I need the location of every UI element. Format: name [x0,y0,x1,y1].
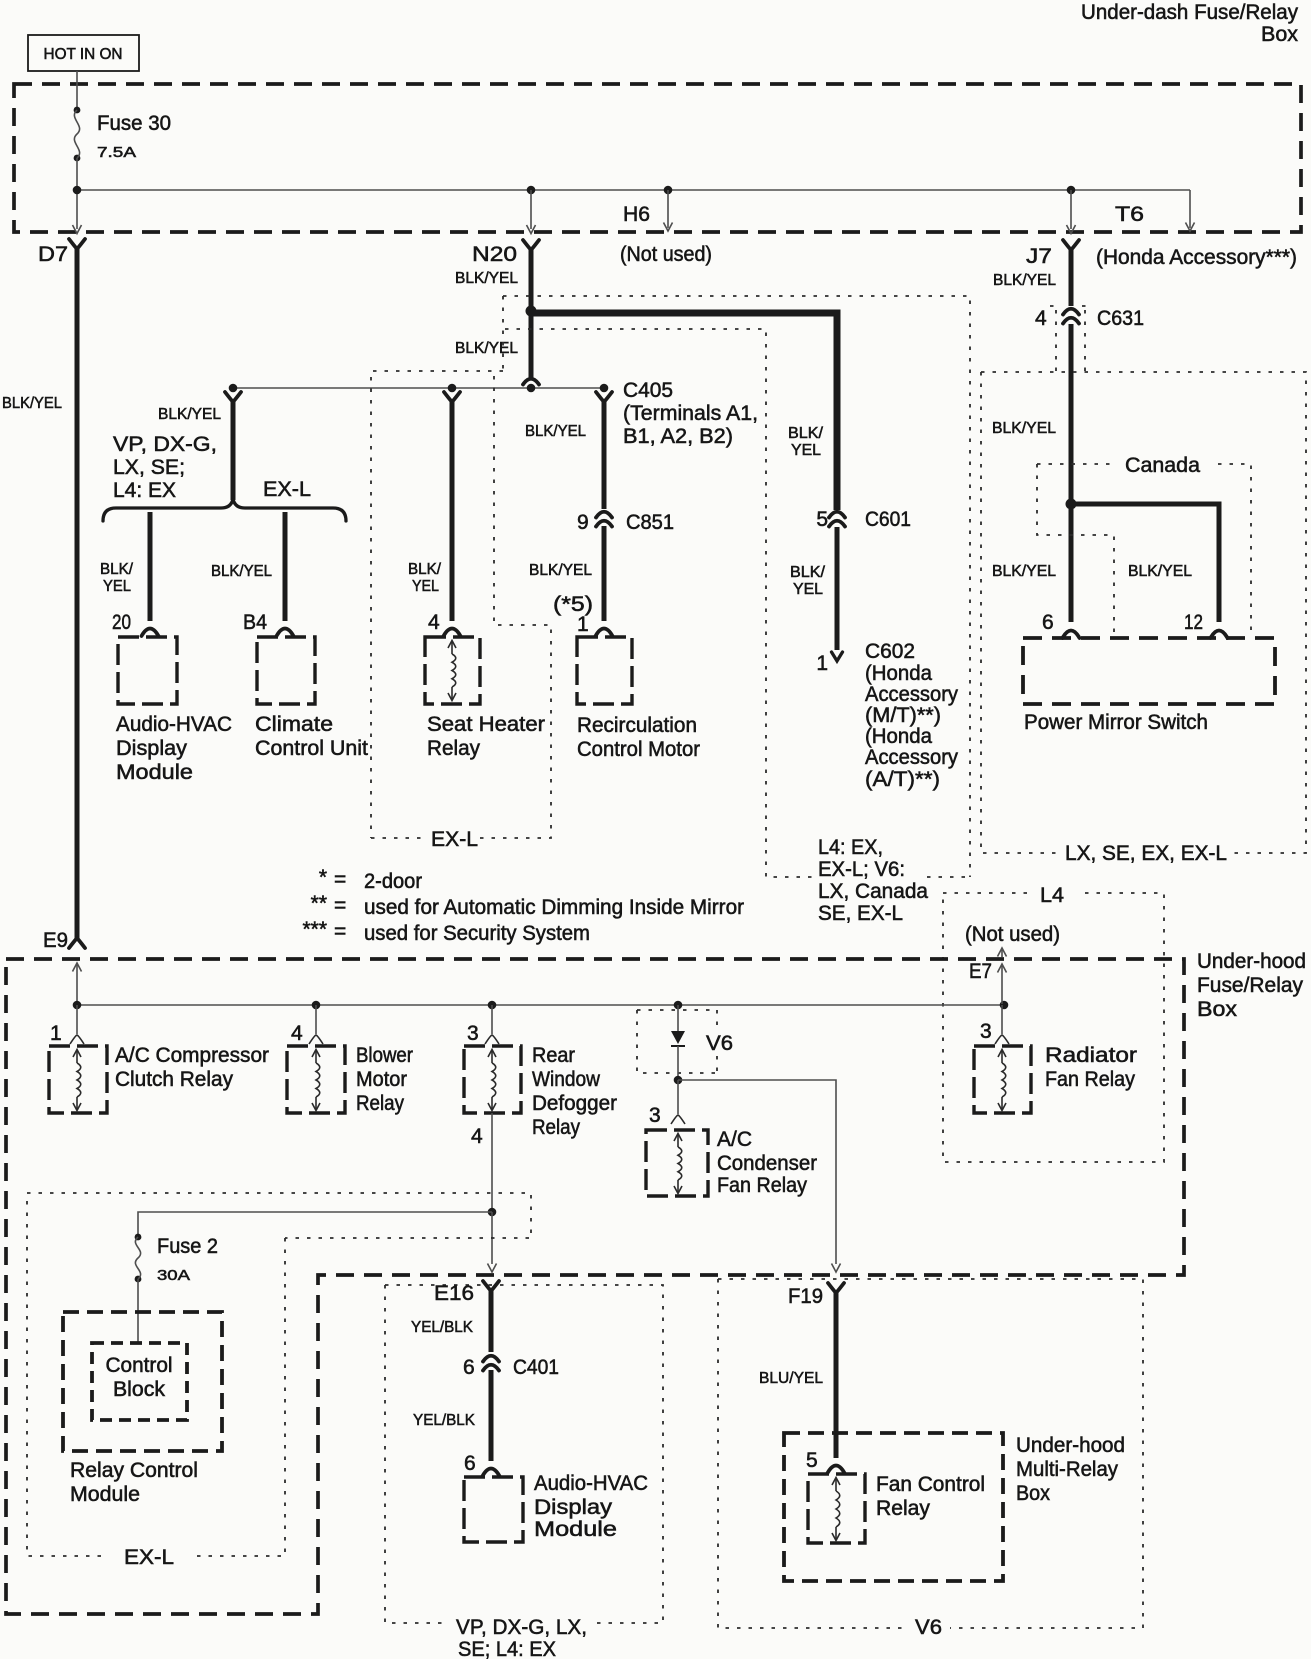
svg-text:5: 5 [806,1449,818,1472]
wire fuse to D7 terminal [76,158,78,229]
left branch fork [225,392,241,402]
svg-text:Seat Heater: Seat Heater [427,713,545,736]
svg-text:BLK/YEL: BLK/YEL [992,563,1056,580]
E7 arrow into box [1001,966,1003,1004]
svg-text:BLK/YEL: BLK/YEL [2,395,62,412]
svg-text:Module: Module [116,761,193,784]
junction N20 drop [527,186,536,195]
svg-text:YEL: YEL [793,581,823,598]
svg-text:L4: L4 [1040,884,1064,907]
node seat heater branch [448,384,457,393]
under-hood fuse/relay box outline [6,959,1184,1614]
fan control relay box [808,1474,865,1543]
svg-text:Relay: Relay [427,737,480,760]
svg-text:4: 4 [428,611,440,634]
svg-text:1: 1 [816,652,828,675]
svg-text:F19: F19 [788,1285,823,1308]
svg-text:Fuse 2: Fuse 2 [157,1235,218,1258]
svg-text:BLK/YEL: BLK/YEL [158,406,221,423]
wire drop to N20 [530,190,532,229]
power mirror switch box [1023,638,1275,704]
relay control module box [63,1312,222,1451]
svg-text:SE; L4: EX: SE; L4: EX [458,1638,556,1659]
svg-text:Fan Relay: Fan Relay [1045,1068,1135,1091]
Canada region (dotted) [1037,464,1251,638]
svg-text:Radiator: Radiator [1045,1044,1137,1067]
wire C631 down to Canada junction [1069,324,1074,622]
bus wire inside under-dash box [77,189,1190,191]
wire drop to H6 (not used) [667,190,669,228]
svg-text:4: 4 [1035,307,1047,330]
svg-text:EX-L; V6:: EX-L; V6: [818,858,905,881]
svg-text:Relay: Relay [876,1497,930,1520]
radiator fan relay box [974,1046,1031,1113]
node N20 [527,384,536,393]
svg-text:Relay Control: Relay Control [70,1459,198,1482]
wire C601 to C602 BLK/YEL [835,527,840,650]
svg-text:Power Mirror Switch: Power Mirror Switch [1024,711,1208,734]
wire defogger to E16 junction [491,1113,493,1212]
A/C compressor clutch relay box [49,1046,107,1113]
svg-text:L4: EX: L4: EX [113,479,176,502]
svg-text:H6: H6 [623,203,650,226]
wire to radiator fan relay [1001,1005,1003,1034]
C631 dotted outline [1050,306,1092,371]
svg-text:4: 4 [471,1125,483,1148]
VP DX-G LX SE L4 EX region (dotted) [385,1285,663,1623]
wire N20 BLK/YEL upper [529,247,534,311]
junction H6 drop [664,186,673,195]
svg-text:Relay: Relay [356,1092,404,1115]
svg-text:BLK/YEL: BLK/YEL [455,270,518,287]
junction to fan control [674,1076,683,1085]
svg-text:Box: Box [1261,23,1299,46]
wire bus to diode [677,1005,679,1031]
svg-text:A/C Compressor: A/C Compressor [115,1044,269,1067]
branch wire to pin 12 [1071,504,1219,622]
svg-text:EX-L: EX-L [124,1546,174,1569]
svg-text:BLK/: BLK/ [788,425,824,442]
svg-text:Fan Relay: Fan Relay [717,1174,807,1197]
svg-text:7.5A: 7.5A [97,144,136,161]
svg-text:B4: B4 [243,611,267,634]
svg-text:EX-L: EX-L [431,828,478,851]
svg-text:BLK/: BLK/ [408,561,442,578]
svg-text:(M/T)**): (M/T)**) [865,704,941,727]
D7 connector fork [69,239,85,249]
svg-text:C401: C401 [513,1356,559,1379]
svg-text:E9: E9 [43,929,68,952]
svg-text:Module: Module [534,1518,617,1541]
svg-text:Under-hood: Under-hood [1016,1434,1125,1457]
svg-text:(Not used): (Not used) [620,243,712,266]
compressor relay coil [73,1050,81,1058]
svg-text:C601: C601 [865,508,911,531]
A/C condenser fan relay box [646,1130,708,1196]
svg-text:used for Automatic Dimming Ins: used for Automatic Dimming Inside Mirror [364,896,744,919]
V6 diode region (dotted) [637,1010,717,1073]
wire C405 to C851 BLK/YEL [602,399,607,509]
svg-text:=: = [334,920,346,943]
recirculation control motor box [577,637,632,704]
svg-text:BLK/YEL: BLK/YEL [455,340,518,357]
svg-text:V6: V6 [915,1616,942,1639]
svg-text:Under-dash Fuse/Relay: Under-dash Fuse/Relay [1081,1,1298,24]
wire to A/C condenser fan relay [677,1080,679,1114]
junction at fuse column [73,186,82,195]
svg-text:Audio-HVAC: Audio-HVAC [116,713,232,736]
svg-text:T6: T6 [1115,203,1144,226]
J7 connector fork [1063,240,1079,250]
svg-text:Motor: Motor [356,1068,407,1091]
svg-text:30A: 30A [157,1267,190,1284]
audio-hvac display module box [118,637,177,704]
svg-text:C631: C631 [1097,307,1144,330]
wire C401 to audio module YEL/BLK [489,1370,494,1461]
svg-text:YEL/BLK: YEL/BLK [411,1319,473,1336]
HOT IN ON box [28,35,139,71]
wire D7 to E9 BLK/YEL [75,246,80,939]
audio-hvac display module box lower [464,1477,523,1542]
svg-text:LX, Canada: LX, Canada [818,880,928,903]
svg-text:**: ** [311,892,327,915]
svg-text:Climate: Climate [255,713,333,736]
fan control relay coil [832,1478,840,1486]
svg-text:BLK/YEL: BLK/YEL [992,420,1056,437]
wire drop to seat heater relay [450,399,455,621]
svg-text:Control Motor: Control Motor [577,738,700,761]
svg-text:(Honda Accessory***): (Honda Accessory***) [1096,246,1297,269]
wire junction to E16 [491,1212,493,1264]
svg-text:D7: D7 [38,243,68,266]
wire E16 YEL/BLK [489,1288,494,1352]
fuse F30 7.5A [74,107,81,114]
svg-text:Box: Box [1016,1482,1050,1505]
wire fuse 2 to control block [137,1279,139,1343]
svg-text:Block: Block [113,1378,165,1401]
svg-text:Display: Display [534,1496,613,1519]
junction J7 drop [1067,186,1076,195]
E16 connector fork [483,1281,499,1291]
svg-text:Module: Module [70,1483,140,1506]
EX-L region around seat heater relay (dotted) [371,371,551,838]
svg-text:=: = [334,894,346,917]
svg-text:YEL: YEL [412,578,439,595]
svg-text:E7: E7 [969,960,992,983]
svg-text:*: * [319,866,327,889]
wire to A/C compressor clutch relay [76,1005,78,1034]
svg-text:YEL: YEL [791,442,821,459]
branch wire to C601 column [531,313,837,510]
svg-text:Window: Window [532,1068,601,1091]
svg-text:LX, SE, EX, EX-L: LX, SE, EX, EX-L [1065,842,1227,865]
EX-L region lower-left (dotted) [27,1193,531,1556]
svg-text:YEL/BLK: YEL/BLK [413,1412,475,1429]
svg-text:VP, DX-G,: VP, DX-G, [113,433,217,456]
svg-text:20: 20 [112,611,131,634]
svg-text:(Honda: (Honda [865,725,932,748]
svg-text:Under-hood: Under-hood [1197,950,1306,973]
left branch wire BLK/YEL [231,399,236,500]
node C405 [600,384,609,393]
fuse F2 30A [135,1234,142,1241]
E9 connector fork [69,938,85,948]
under-hood bus wire [77,1004,1004,1006]
wire from HOT IN ON to Fuse 30 [76,71,78,110]
svg-text:Clutch Relay: Clutch Relay [115,1068,233,1091]
svg-text:Recirculation: Recirculation [577,714,697,737]
svg-text:12: 12 [1184,611,1203,634]
svg-text:(A/T)**): (A/T)**) [865,768,940,791]
wire C851 to recirculation motor [602,526,607,621]
V6 region lower (dotted) [718,1279,1143,1628]
svg-text:BLK/YEL: BLK/YEL [1128,563,1192,580]
wire junction down to distribution node [529,311,534,379]
svg-text:Audio-HVAC: Audio-HVAC [534,1472,648,1495]
svg-text:6: 6 [464,1452,476,1475]
svg-text:B1, A2, B2): B1, A2, B2) [623,425,733,448]
F19 connector fork [828,1283,844,1293]
svg-text:Control Unit: Control Unit [255,737,368,760]
svg-text:Control: Control [106,1354,173,1377]
svg-text:3: 3 [467,1022,479,1045]
svg-text:BLK/: BLK/ [790,564,826,581]
trim region box L4 EX EX-L V6 (dotted) [503,296,970,877]
svg-text:LX, SE;: LX, SE; [113,456,185,479]
svg-text:(Honda: (Honda [865,662,932,685]
C405 fork [596,392,612,402]
svg-text:Fuse 30: Fuse 30 [97,112,171,135]
svg-text:2-door: 2-door [364,870,422,893]
wire to rear window defogger relay [491,1005,493,1034]
svg-text:E16: E16 [434,1282,474,1305]
svg-text:BLK/YEL: BLK/YEL [993,272,1056,289]
svg-text:(Terminals A1,: (Terminals A1, [623,402,758,425]
Canada junction [1066,499,1077,510]
svg-text:Rear: Rear [532,1044,575,1067]
svg-text:Blower: Blower [356,1044,413,1067]
svg-text:4: 4 [291,1022,303,1045]
svg-text:BLK/YEL: BLK/YEL [211,563,272,580]
svg-text:Condenser: Condenser [717,1152,817,1175]
svg-text:6: 6 [463,1356,475,1379]
svg-text:VP, DX-G, LX,: VP, DX-G, LX, [456,1616,587,1639]
svg-text:1: 1 [577,613,589,636]
svg-text:***: *** [302,918,327,941]
seat heater relay box [425,637,480,704]
branch wire to fuse 2 [138,1212,492,1237]
node left branch [229,384,238,393]
svg-text:(Not used): (Not used) [965,923,1060,946]
connector chevron at distribution line [523,379,539,385]
junction to fuse 2 [488,1208,497,1217]
rear window defogger relay box [464,1046,521,1113]
wire to blower motor relay [315,1005,317,1034]
arrow up to not used [1001,950,1003,957]
under-hood multi-relay box [784,1433,1003,1581]
diode V6 [671,1031,685,1044]
svg-text:3: 3 [980,1020,992,1043]
svg-text:Accessory: Accessory [865,683,958,706]
radiator fan relay coil [998,1050,1006,1058]
svg-text:1: 1 [50,1022,62,1045]
svg-text:Relay: Relay [532,1116,580,1139]
wire drop to audio-hvac display module [148,512,153,621]
svg-text:C405: C405 [623,379,673,402]
svg-text:Fan Control: Fan Control [876,1473,985,1496]
blower relay coil [312,1050,320,1058]
wire drop to J7 [1070,190,1072,229]
svg-text:J7: J7 [1026,245,1052,268]
wire diode to junction [677,1046,679,1080]
trim split brace [103,499,346,521]
svg-text:Box: Box [1197,998,1238,1021]
branch wire to F19 [678,1080,836,1264]
wire drop to climate control unit [283,512,288,621]
svg-text:=: = [334,868,346,891]
svg-text:Defogger: Defogger [532,1092,617,1115]
svg-text:used for Security System: used for Security System [364,922,590,945]
svg-text:5: 5 [816,508,828,531]
svg-text:YEL: YEL [103,578,131,595]
wire J7 BLK/YEL [1069,247,1074,306]
svg-text:Fuse/Relay: Fuse/Relay [1197,974,1303,997]
svg-text:6: 6 [1042,611,1054,634]
svg-text:Accessory: Accessory [865,746,958,769]
svg-text:BLK/YEL: BLK/YEL [525,423,586,440]
wire drop to T6 [1189,190,1191,228]
svg-text:V6: V6 [706,1032,733,1055]
control block box [92,1343,187,1420]
svg-text:L4: EX,: L4: EX, [818,836,883,859]
svg-text:C602: C602 [865,640,915,663]
arrow into under-hood box at E9 [76,964,78,1004]
wire F19 BLU/YEL [834,1290,839,1458]
condenser relay coil [674,1134,682,1142]
svg-text:Multi-Relay: Multi-Relay [1016,1458,1118,1481]
svg-text:SE, EX-L: SE, EX-L [818,902,903,925]
svg-text:Canada: Canada [1125,454,1200,477]
svg-text:Display: Display [116,737,188,760]
N20 connector fork [523,240,539,250]
svg-text:EX-L: EX-L [263,478,311,501]
climate control unit box [257,637,315,704]
seat heater relay coil [448,641,456,649]
junction on N20 wire [526,306,537,317]
defogger relay coil [488,1050,496,1058]
svg-text:A/C: A/C [717,1128,752,1151]
svg-text:BLU/YEL: BLU/YEL [759,1370,823,1387]
svg-text:HOT IN ON: HOT IN ON [44,46,123,63]
blower motor relay box [287,1046,345,1113]
seat heater fork [444,392,460,402]
svg-text:BLK/YEL: BLK/YEL [529,562,592,579]
svg-text:3: 3 [649,1104,661,1127]
svg-text:N20: N20 [472,243,517,266]
svg-text:9: 9 [577,511,589,534]
under-dash fuse/relay box outline [14,84,1301,232]
svg-text:C851: C851 [626,511,674,534]
distribution wire [233,387,604,389]
L4 region around radiator fan relay (dotted) [943,893,1164,1162]
LX SE EX EX-L region (dotted) [981,372,1306,853]
svg-text:BLK/: BLK/ [100,561,134,578]
